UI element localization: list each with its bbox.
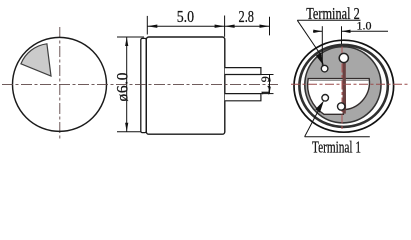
terminal2 pad [321,65,328,72]
pin top [225,68,261,75]
side-view body [146,37,225,134]
back view outer circle [294,40,394,132]
ext line right [269,17,271,36]
svg-text:9: 9 [258,76,272,82]
arrow right of 2.8 [260,25,270,28]
maroon trace bar [343,63,346,114]
ext line at center [341,26,343,44]
centerline horizontal back view [291,83,408,85]
ext line left [146,16,148,35]
arrow left of 2.8 [225,25,235,28]
dim ø6.0 extension bottom [117,131,145,133]
arrow right-pointing [313,30,322,33]
top hole [339,53,348,62]
dim 5.0/2.8 line [147,25,269,27]
svg-text:ø6.0: ø6.0 [114,72,131,101]
svg-text:5.0: 5.0 [177,7,194,26]
chord inner line right [345,79,369,81]
back view middle circle [299,45,387,127]
centerline vertical left view [59,27,61,140]
terminal 1 leader shoulder [305,136,370,138]
terminal 1 leader diagonal [305,108,320,137]
arrow down 1.9 [268,87,271,94]
chord inner line left [310,79,344,81]
back view pcb disc [305,47,381,123]
terminal1 pad [322,95,329,102]
pin bottom [225,94,261,101]
dim 1.0 line right seg [342,30,389,32]
dim ø6.0 extension top [117,36,144,38]
dim 1.9 ext ticks [262,74,274,76]
arrow up [125,37,128,46]
dim ø6.0 line [126,37,128,132]
white pad-area right sector [345,79,369,110]
svg-text:Terminal 2: Terminal 2 [306,4,360,23]
bottom pad [338,103,345,110]
svg-text:2.8: 2.8 [239,7,255,26]
arrow up 1.9 [268,75,271,82]
svg-text:1: 1 [258,90,272,96]
dim 1.9 line [269,75,271,94]
terminal 1 arrowhead [315,101,324,113]
ext line at pad [321,26,323,65]
terminal 2 leader diagonal [297,20,321,56]
arrow left of 5.0 [147,25,157,28]
front-view circle [13,37,107,131]
arrow right of 5.0 [215,25,225,28]
arrow down [125,123,128,132]
centerline horizontal left+middle views [2,83,278,85]
svg-text:.: . [258,85,272,88]
ext line mid [224,16,226,37]
centerline vertical back view [341,47,343,131]
terminal 2 leader shoulder [297,19,360,21]
sound-hole wedge [21,44,51,76]
terminal 2 arrowhead [316,53,324,66]
white pad-area left [308,79,344,115]
svg-text:Terminal 1: Terminal 1 [312,138,361,157]
arrow left-pointing [342,30,351,33]
dim 1.0 line left seg [313,30,322,32]
side-view rim [141,38,147,132]
